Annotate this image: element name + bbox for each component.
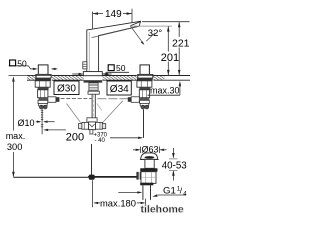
svg-text:G1: G1 bbox=[163, 186, 176, 197]
svg-text:max.180: max.180 bbox=[100, 197, 136, 208]
svg-text:300: 300 bbox=[7, 142, 23, 152]
svg-text:201: 201 bbox=[161, 52, 179, 64]
svg-text:50: 50 bbox=[17, 58, 27, 68]
svg-text:max.30: max.30 bbox=[150, 86, 180, 96]
svg-text:200: 200 bbox=[66, 132, 84, 144]
svg-text:50: 50 bbox=[116, 63, 126, 73]
svg-text:32°: 32° bbox=[148, 28, 163, 39]
svg-text:Ø34: Ø34 bbox=[110, 84, 129, 95]
svg-text:max.: max. bbox=[6, 131, 26, 141]
svg-text:4: 4 bbox=[183, 190, 187, 197]
svg-text:Ø30: Ø30 bbox=[57, 84, 76, 95]
svg-text:221: 221 bbox=[172, 38, 190, 50]
svg-text:40-53: 40-53 bbox=[162, 161, 188, 172]
svg-text:Ø10: Ø10 bbox=[18, 118, 35, 128]
svg-text:tilehome: tilehome bbox=[141, 204, 184, 216]
svg-text:- 40: - 40 bbox=[95, 138, 106, 144]
svg-text:149: 149 bbox=[105, 9, 122, 20]
